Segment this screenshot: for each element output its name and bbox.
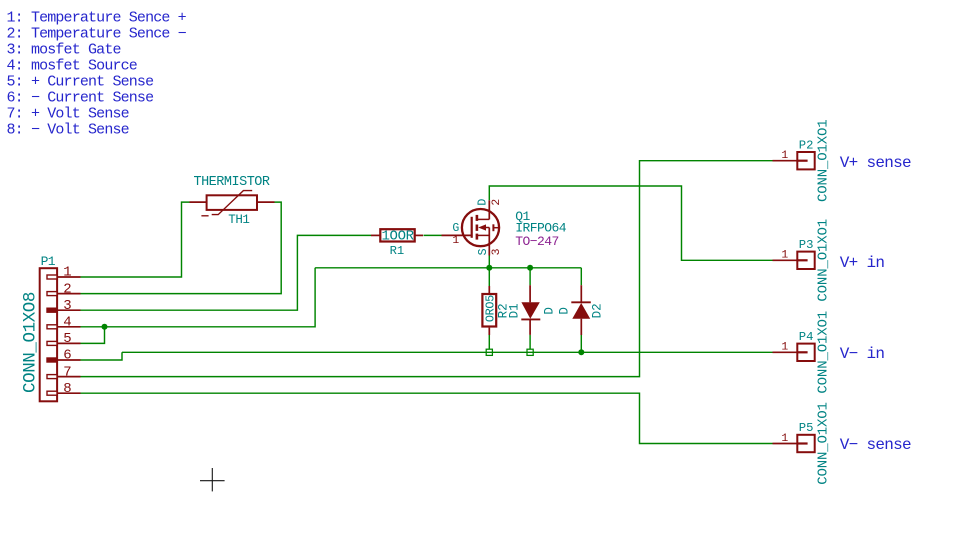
wire R1 to Q1 gate	[424, 234, 442, 236]
P3 pin stub	[773, 259, 798, 261]
P3 pin notch	[797, 259, 807, 261]
wire end square R2 bottom	[486, 349, 492, 355]
wire pin3 to R1	[81, 235, 372, 310]
svg-text:TO−247: TO−247	[515, 234, 558, 249]
svg-text:3: 3	[63, 298, 71, 314]
Q1 gate pin stub	[442, 234, 472, 236]
wire pin5 up to pin4 wire	[81, 327, 105, 344]
wire Q1 drain to P3	[489, 186, 772, 260]
wire pin4 to source rail	[81, 268, 316, 327]
D1 cathode bar	[521, 318, 540, 320]
svg-text:ORO5: ORO5	[483, 295, 497, 322]
wire D2 top from rail	[580, 268, 582, 285]
svg-text:2: 2	[63, 281, 71, 297]
svg-text:CONN_O1XO1: CONN_O1XO1	[816, 119, 832, 202]
wire D2 bottom	[580, 335, 582, 352]
mosfet Q1 body circle	[462, 209, 499, 246]
Q1 drain pin stub	[488, 200, 490, 219]
sheet origin crosshair	[200, 468, 225, 491]
svg-text:V+ in: V+ in	[840, 254, 885, 272]
wire D1 bottom	[529, 335, 531, 352]
Q1 bulk bar	[492, 224, 494, 231]
svg-text:2: Temperature Sence −: 2: Temperature Sence −	[7, 25, 187, 42]
P4 pin notch	[797, 351, 807, 353]
Q1 drain internal	[477, 218, 489, 220]
Q1 arrow	[478, 224, 486, 230]
Q1 bulk tick	[493, 227, 498, 229]
svg-text:V+ sense: V+ sense	[840, 154, 911, 172]
Q1 channel dashes	[476, 215, 479, 240]
wire bottom rail to P4	[122, 351, 773, 353]
D2 cathode bar	[571, 301, 591, 303]
svg-text:1: 1	[781, 433, 788, 445]
wire pin8 to P5	[81, 393, 773, 443]
connector P5	[797, 435, 814, 452]
Q1 mid internal with arrow line	[482, 227, 490, 229]
svg-text:4: 4	[63, 315, 71, 331]
thermistor slash	[201, 191, 252, 216]
svg-text:CONN_O1XO8: CONN_O1XO8	[20, 292, 40, 393]
P5 pin notch	[797, 442, 807, 444]
R1 pin stubs	[371, 234, 423, 236]
wire pin7 to P2	[81, 161, 773, 377]
svg-text:R1: R1	[390, 244, 405, 258]
diode D2	[572, 303, 590, 319]
svg-text:P4: P4	[799, 330, 814, 344]
P2 pin stub	[773, 160, 798, 162]
svg-text:CONN_O1XO1: CONN_O1XO1	[816, 311, 832, 394]
svg-text:8: − Volt Sense: 8: − Volt Sense	[7, 121, 130, 138]
svg-text:2: 2	[491, 199, 503, 206]
svg-text:1: 1	[452, 235, 459, 247]
junction Q1 source / R2	[486, 265, 492, 271]
svg-text:6: 6	[63, 348, 71, 364]
P2 pin notch	[797, 160, 807, 162]
thermistor TH1 body	[207, 195, 257, 210]
svg-text:V− in: V− in	[840, 345, 885, 363]
svg-text:5: + Current Sense: 5: + Current Sense	[7, 73, 155, 90]
P5 pin stub	[773, 443, 798, 445]
svg-text:D1: D1	[508, 303, 522, 318]
svg-text:1: Temperature Sence +: 1: Temperature Sence +	[7, 9, 187, 26]
svg-text:D: D	[558, 307, 572, 315]
svg-text:D: D	[543, 307, 557, 315]
svg-text:1OOR: 1OOR	[381, 229, 414, 245]
junction D2 bottom rail	[578, 349, 584, 355]
svg-text:3: mosfet Gate: 3: mosfet Gate	[7, 41, 122, 58]
resistor R1	[380, 229, 414, 241]
P1 pin notches	[47, 275, 57, 395]
svg-text:S: S	[477, 248, 490, 255]
svg-text:P1: P1	[41, 254, 56, 269]
svg-text:8: 8	[63, 381, 71, 397]
svg-text:D: D	[476, 199, 489, 206]
wire R2 bottom	[488, 335, 490, 352]
svg-text:7: + Volt Sense: 7: + Volt Sense	[7, 105, 130, 122]
wire D1 top	[529, 268, 531, 285]
connector P2	[797, 152, 814, 169]
P1 pin numbers	[63, 265, 71, 397]
wire Q1 source to rail	[488, 256, 490, 268]
thermistor pin stubs	[190, 201, 275, 203]
Q1 source pin stub	[488, 228, 490, 256]
svg-text:V− sense: V− sense	[840, 436, 911, 454]
svg-text:TH1: TH1	[228, 213, 249, 227]
svg-text:CONN_O1XO1: CONN_O1XO1	[816, 402, 832, 485]
P1 pin stubs	[57, 277, 81, 393]
svg-text:D2: D2	[591, 303, 605, 318]
svg-text:4: mosfet Source: 4: mosfet Source	[7, 57, 138, 74]
notes text block	[7, 9, 187, 138]
svg-text:P5: P5	[799, 421, 814, 435]
wire source rail	[315, 267, 581, 269]
wire R2 top	[488, 268, 490, 286]
connector P4	[797, 344, 814, 361]
svg-text:CONN_O1XO1: CONN_O1XO1	[816, 219, 832, 302]
svg-text:THERMISTOR: THERMISTOR	[193, 175, 269, 190]
svg-text:P3: P3	[799, 238, 814, 252]
svg-text:1: 1	[63, 265, 71, 281]
svg-text:7: 7	[63, 364, 71, 380]
R2 pin stubs	[488, 286, 490, 335]
svg-text:P2: P2	[799, 138, 814, 152]
Q1 source internal	[477, 234, 489, 236]
connector P1	[40, 268, 57, 401]
connector P3	[797, 252, 814, 269]
wire pin2 to thermistor right	[81, 202, 282, 294]
D1 pin stubs	[529, 285, 531, 335]
svg-text:6: − Current Sense: 6: − Current Sense	[7, 89, 155, 106]
svg-text:1: 1	[781, 250, 788, 262]
Q1 gate bar	[471, 217, 473, 238]
diode D1	[521, 302, 539, 318]
wire pin6 to bottom rail	[81, 352, 123, 360]
wire end square D1 bottom	[527, 349, 533, 355]
resistor R2	[482, 294, 496, 327]
D2 pin stubs	[580, 285, 582, 335]
svg-text:G: G	[452, 222, 459, 235]
wire pin1 to thermistor left	[81, 202, 190, 277]
P4 pin stub	[773, 351, 798, 353]
svg-text:1: 1	[781, 150, 788, 162]
svg-text:5: 5	[63, 331, 71, 347]
junction D1 top	[527, 265, 533, 271]
svg-text:3: 3	[491, 248, 503, 255]
junction pin4/pin5	[102, 324, 108, 330]
svg-text:1: 1	[781, 342, 788, 354]
